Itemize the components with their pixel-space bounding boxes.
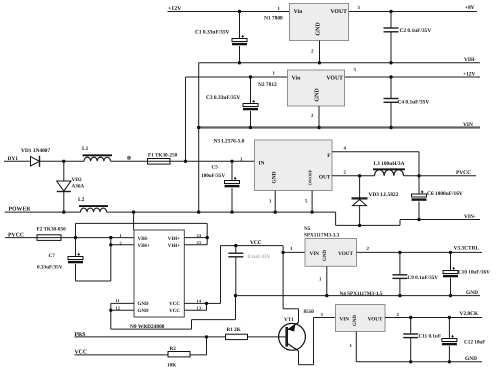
svg-text:3: 3 bbox=[269, 199, 272, 205]
junction VD3 bottom bbox=[358, 224, 361, 227]
wire stepped VIN- rail bbox=[336, 212, 480, 225]
svg-text:C12 10uF: C12 10uF bbox=[464, 340, 485, 346]
svg-text:VIH-: VIH- bbox=[464, 57, 476, 63]
svg-text:0.33uF/35V: 0.33uF/35V bbox=[37, 265, 63, 271]
junction PRS/R2 node bbox=[205, 335, 208, 338]
node PRS label bbox=[75, 332, 86, 338]
capacitor C1 0.33uF/35V bbox=[195, 12, 247, 63]
wire left vertical from VIH- rail down to lower rail bbox=[198, 63, 200, 212]
node POWER label bbox=[9, 206, 32, 212]
bead between L1 and F1 bbox=[127, 156, 131, 160]
svg-text:14: 14 bbox=[197, 298, 202, 303]
capacitor C12 10uF bbox=[442, 318, 486, 362]
junction C2 top bbox=[389, 10, 392, 13]
wire jog PVCC up and over to pins 24/23 bbox=[76, 223, 208, 244]
junction C10 bottom bbox=[449, 294, 452, 297]
wire PVCC line bbox=[5, 237, 134, 239]
wire module pin2 stub bbox=[111, 244, 134, 246]
svg-text:3: 3 bbox=[358, 5, 361, 11]
svg-text:C4 0.1uF/35V: C4 0.1uF/35V bbox=[398, 100, 430, 106]
svg-text:VD3 LL5822: VD3 LL5822 bbox=[369, 192, 399, 198]
svg-text:5: 5 bbox=[305, 199, 308, 205]
wire N5 GND pin bbox=[326, 266, 328, 295]
wire N6 GND pin and rail bbox=[356, 332, 482, 362]
svg-text:Vin: Vin bbox=[294, 8, 304, 15]
wire R1 to VT1 base bbox=[248, 336, 287, 338]
junction pin2 bus bbox=[109, 243, 112, 246]
svg-text:POWER: POWER bbox=[9, 206, 32, 212]
svg-text:GND: GND bbox=[138, 301, 150, 307]
junction C8 bottom / GND rail corner bbox=[234, 294, 237, 297]
regulator N5 SPX1117M3-3.3 bbox=[290, 226, 370, 282]
capacitor C9 0.1uF/35V bbox=[392, 252, 438, 295]
node PVCC label (left) bbox=[8, 232, 24, 238]
module N9 WRD24800 box bbox=[116, 230, 202, 330]
junction N3 ON/OFF bbox=[310, 210, 313, 213]
junction C2 bottom bbox=[389, 61, 392, 64]
junction N2 GND on VIN rail bbox=[317, 126, 320, 129]
wire VT1 emitter feed bbox=[283, 309, 298, 323]
wire POWER line / lower rail bbox=[5, 211, 336, 213]
wire +12V net to N1 Vin bbox=[168, 11, 290, 13]
svg-text:IN: IN bbox=[259, 160, 265, 166]
fuse F2 TK30-050 bbox=[37, 227, 67, 241]
svg-text:GND: GND bbox=[352, 315, 358, 327]
resistor R1 2K bbox=[226, 327, 248, 340]
node VIN- label bbox=[464, 214, 476, 220]
svg-text:+12V: +12V bbox=[168, 6, 182, 12]
regulator N6 SPX1117 (V2.8) bbox=[321, 305, 400, 350]
junction C3 top bbox=[249, 75, 252, 78]
svg-text:VIH+: VIH+ bbox=[168, 236, 180, 242]
capacitor C7 0.33uF/35V bbox=[37, 238, 111, 281]
diode VD1 1N4007 bbox=[21, 148, 51, 167]
svg-text:2: 2 bbox=[344, 169, 347, 175]
svg-text:1: 1 bbox=[290, 246, 293, 252]
svg-text:N4 SPX1117M3-1.5: N4 SPX1117M3-1.5 bbox=[340, 291, 383, 297]
svg-text:L1: L1 bbox=[82, 146, 89, 152]
svg-text:V2.8CK: V2.8CK bbox=[460, 311, 480, 317]
junction VCC branch to N5 bbox=[281, 251, 284, 254]
svg-text:C9 0.1uF/35V: C9 0.1uF/35V bbox=[408, 275, 439, 281]
svg-text:GND: GND bbox=[466, 290, 478, 296]
wire N3 OUT to PVCC bbox=[332, 175, 476, 177]
node VCC label (bottom) bbox=[75, 349, 88, 355]
svg-text:VD2: VD2 bbox=[72, 177, 82, 183]
svg-text:100uF/35V: 100uF/35V bbox=[201, 173, 225, 179]
wire N6 VOUT to V2.8CK bbox=[385, 317, 482, 319]
svg-text:N1 7808: N1 7808 bbox=[264, 15, 283, 21]
svg-text:ON/OFF: ON/OFF bbox=[308, 169, 313, 185]
svg-text:C10 10uF/16V: C10 10uF/16V bbox=[458, 269, 490, 275]
node +8V label bbox=[465, 5, 475, 11]
junction C3 bottom bbox=[249, 126, 252, 129]
svg-text:L3 100uH/3A: L3 100uH/3A bbox=[374, 161, 405, 167]
svg-text:A36A: A36A bbox=[72, 184, 85, 190]
wire R2 up to PRS node bbox=[206, 337, 208, 355]
svg-text:24: 24 bbox=[197, 233, 202, 238]
junction N5 GND bbox=[325, 294, 328, 297]
svg-text:2: 2 bbox=[120, 240, 122, 245]
wire VCC rail bbox=[221, 245, 284, 247]
capacitor C2 0.1uF/35V bbox=[384, 12, 432, 63]
svg-text:GND: GND bbox=[272, 171, 278, 183]
node VIN label bbox=[463, 122, 473, 128]
junction N3 GND bbox=[274, 210, 277, 213]
wire VCC down to N5 and VT1 bbox=[283, 246, 305, 309]
svg-text:N2 7812: N2 7812 bbox=[258, 82, 277, 88]
junction C1 bottom bbox=[238, 61, 241, 64]
svg-text:1: 1 bbox=[350, 343, 353, 349]
junction POWER to module top bbox=[132, 210, 135, 213]
junction N1 GND on VIH- rail bbox=[318, 61, 321, 64]
svg-text:F1 TK30-250: F1 TK30-250 bbox=[148, 153, 178, 159]
junction C5 top bbox=[230, 160, 233, 163]
fuse F1 TK30-250 bbox=[148, 153, 178, 165]
wire POWER tap down to module bbox=[133, 212, 135, 230]
svg-text:+12V: +12V bbox=[463, 71, 475, 77]
svg-text:R2: R2 bbox=[170, 346, 177, 352]
transistor VT1 8550 bbox=[279, 309, 315, 351]
junction C11 top bbox=[409, 316, 412, 319]
svg-text:VCC: VCC bbox=[250, 240, 262, 246]
junction pins14 bus bbox=[205, 302, 208, 305]
wire VIN rail bbox=[199, 126, 480, 128]
svg-text:F2 TK30-050: F2 TK30-050 bbox=[37, 227, 67, 233]
inductor L1 bbox=[82, 146, 112, 161]
node DY1 label bbox=[8, 156, 19, 162]
wire vertical N2-Vin rail to input line bbox=[185, 77, 187, 161]
node V2.8CK label bbox=[460, 311, 480, 317]
svg-text:10K: 10K bbox=[167, 363, 176, 369]
capacitor C6 1000uF/16V bbox=[412, 176, 463, 220]
svg-text:VIN: VIN bbox=[463, 122, 473, 128]
junction left vertical on VIN rail bbox=[197, 126, 200, 129]
node +12V label (right) bbox=[463, 71, 475, 77]
svg-text:3: 3 bbox=[354, 67, 357, 73]
wire main input line bbox=[4, 160, 255, 162]
svg-text:2: 2 bbox=[311, 113, 314, 119]
regulator N1 7808 bbox=[264, 4, 361, 55]
node VCC label bbox=[250, 240, 262, 246]
junction C12 bottom bbox=[448, 360, 451, 363]
junction pin12 bus bbox=[109, 309, 112, 312]
wire VT1 collector to N6 bbox=[299, 318, 336, 365]
junction VD2/POWER bbox=[62, 210, 65, 213]
node V3.3CTRL label bbox=[454, 246, 480, 252]
node +12V label (left) bbox=[168, 6, 182, 12]
svg-text:1: 1 bbox=[278, 6, 281, 12]
svg-text:C3 0.33uF/35V: C3 0.33uF/35V bbox=[206, 95, 241, 101]
junction F2 output bbox=[74, 236, 77, 239]
junction C6 bottom bbox=[417, 218, 420, 221]
node GND label (upper) bbox=[466, 290, 478, 296]
wire module pins 24/23 stubs bbox=[184, 238, 207, 245]
inductor L3 100uH/3A bbox=[373, 161, 405, 176]
svg-text:OUT: OUT bbox=[319, 174, 331, 180]
wire N3 ON/OFF pin bbox=[311, 191, 313, 213]
svg-text:1: 1 bbox=[120, 233, 122, 238]
junction C6 top / FB bbox=[417, 174, 420, 177]
svg-text:SPX1117M3-3.3: SPX1117M3-3.3 bbox=[304, 232, 340, 238]
svg-text:VOUT: VOUT bbox=[326, 76, 343, 82]
junction C10 top bbox=[449, 251, 452, 254]
svg-text:VIH-: VIH- bbox=[138, 236, 149, 242]
regulator N3 L2576-5.0 bbox=[214, 139, 347, 205]
resistor R2 10K bbox=[167, 346, 190, 369]
junction C1 top bbox=[238, 10, 241, 13]
svg-text:GND: GND bbox=[315, 88, 321, 102]
diode VD3 LL5822 bbox=[352, 176, 399, 226]
junction pins24 vertical bbox=[206, 236, 209, 239]
svg-text:11: 11 bbox=[116, 298, 120, 303]
svg-text:VD1 1N4007: VD1 1N4007 bbox=[21, 148, 51, 154]
capacitor C11 0.1uF bbox=[403, 318, 441, 362]
node PVCC label (right) bbox=[456, 170, 471, 176]
svg-text:23: 23 bbox=[197, 240, 202, 245]
junction C4 bottom bbox=[389, 126, 392, 129]
svg-text:VIH+: VIH+ bbox=[168, 243, 180, 249]
inductor L2 bbox=[78, 197, 108, 212]
junction VD3 top bbox=[358, 174, 361, 177]
svg-text:VCC: VCC bbox=[169, 308, 180, 314]
junction input/VD2 bbox=[62, 160, 65, 163]
svg-text:GND: GND bbox=[138, 308, 150, 314]
diode VD2 A36A (TVS to POWER) bbox=[57, 161, 85, 212]
svg-text:PVCC: PVCC bbox=[456, 170, 471, 176]
svg-text:1: 1 bbox=[319, 277, 322, 283]
wire N5 VOUT to V3.3CTRL bbox=[357, 251, 483, 253]
node VIH- label bbox=[464, 57, 476, 63]
svg-text:VIN: VIN bbox=[310, 251, 320, 257]
capacitor C5 100uF/35V bbox=[201, 161, 240, 212]
svg-text:VIN-: VIN- bbox=[464, 214, 476, 220]
svg-text:C1 0.33uF/35V: C1 0.33uF/35V bbox=[195, 30, 230, 36]
svg-text:N5: N5 bbox=[304, 226, 311, 232]
wire N2 Vin rail bbox=[186, 76, 288, 78]
wire N1 GND pin bbox=[319, 41, 321, 63]
svg-text:V3.3CTRL: V3.3CTRL bbox=[454, 246, 480, 252]
capacitor C8 0.1uF/35V bbox=[228, 246, 270, 296]
junction F1 output to N2 branch bbox=[184, 160, 187, 163]
wire module pins 11/12 to GND path bbox=[111, 296, 236, 330]
wire module pins 14/13 to VCC bbox=[184, 246, 220, 311]
svg-text:Vin: Vin bbox=[292, 75, 302, 82]
svg-text:GND: GND bbox=[465, 356, 477, 362]
svg-text:0.1uF/35V: 0.1uF/35V bbox=[248, 254, 271, 260]
wire VIH- rail bbox=[199, 62, 480, 64]
wire N3 FB bbox=[332, 152, 419, 176]
svg-text:VT1: VT1 bbox=[284, 317, 294, 323]
wire PRS line to R1 bbox=[75, 336, 226, 338]
wire N1 VOUT to +8V bbox=[349, 11, 478, 13]
svg-text:N3 L2576-5.0: N3 L2576-5.0 bbox=[214, 139, 245, 145]
svg-text:1: 1 bbox=[273, 71, 276, 77]
junction C9 bottom bbox=[398, 294, 401, 297]
wire VCC line to R2 bbox=[75, 354, 207, 356]
junction left vertical on lower rail bbox=[197, 210, 200, 213]
svg-text:VOUT: VOUT bbox=[330, 9, 347, 15]
svg-text:2: 2 bbox=[367, 246, 370, 252]
node GND label (bottom) bbox=[465, 356, 477, 362]
svg-text:C7: C7 bbox=[49, 253, 56, 259]
capacitor C4 0.1uF/35V bbox=[384, 77, 430, 128]
capacitor C3 0.33uF/35V bbox=[206, 77, 258, 128]
regulator N2 7812 bbox=[258, 67, 357, 119]
junction C8 top bbox=[234, 244, 237, 247]
svg-text:L2: L2 bbox=[78, 197, 85, 203]
svg-text:+8V: +8V bbox=[465, 5, 475, 11]
capacitor C10 10uF/16V bbox=[443, 252, 490, 295]
junction C9 top bbox=[398, 251, 401, 254]
svg-text:VOUT: VOUT bbox=[338, 251, 353, 257]
junction C12 top bbox=[448, 316, 451, 319]
node N4 designator label bbox=[340, 291, 383, 297]
junction C5 bottom bbox=[230, 210, 233, 213]
svg-text:DY1: DY1 bbox=[8, 156, 19, 162]
wire GND rail (upper) bbox=[236, 295, 481, 297]
svg-text:C11 0.1uF: C11 0.1uF bbox=[419, 334, 441, 340]
svg-text:C2 0.1uF/35V: C2 0.1uF/35V bbox=[400, 28, 432, 34]
svg-text:8550: 8550 bbox=[304, 309, 315, 315]
junction C11 bottom bbox=[409, 360, 412, 363]
svg-text:VIH+: VIH+ bbox=[138, 243, 150, 249]
wire N2 VOUT to +12V bbox=[345, 76, 481, 78]
svg-text:2: 2 bbox=[311, 49, 314, 55]
svg-text:4: 4 bbox=[344, 145, 347, 151]
svg-text:GND: GND bbox=[322, 250, 328, 262]
svg-text:R1 2K: R1 2K bbox=[227, 327, 241, 333]
svg-text:C5: C5 bbox=[212, 165, 219, 171]
wire N3 GND pin bbox=[274, 191, 276, 213]
svg-text:VCC: VCC bbox=[169, 301, 180, 307]
svg-text:VIN: VIN bbox=[340, 316, 350, 322]
svg-text:GND: GND bbox=[316, 22, 322, 36]
svg-text:VOUT: VOUT bbox=[368, 316, 383, 322]
wire N2 GND pin bbox=[318, 106, 320, 128]
junction pin1 bus bbox=[109, 236, 112, 239]
svg-text:C6 1000uF/16V: C6 1000uF/16V bbox=[427, 191, 463, 197]
junction C4 top bbox=[389, 75, 392, 78]
